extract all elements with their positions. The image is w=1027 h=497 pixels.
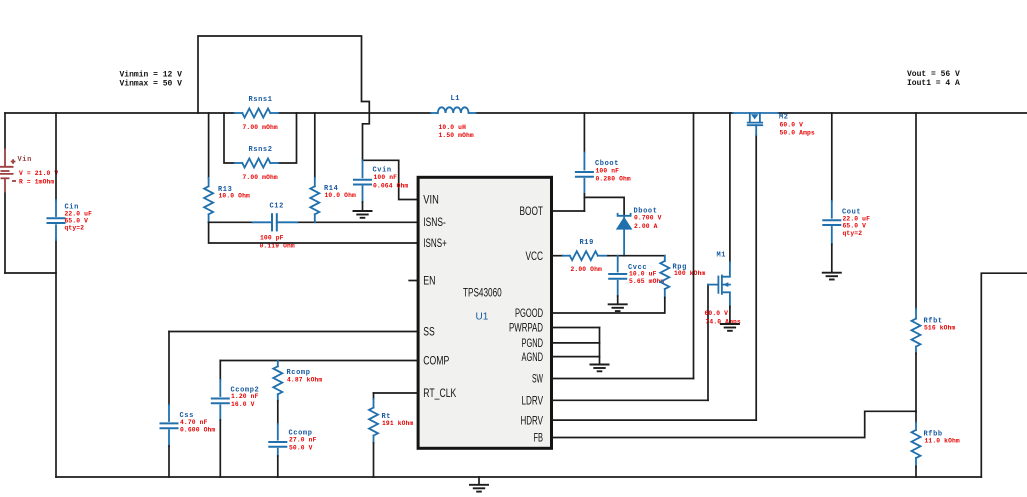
wire: output staircase right edge	[981, 273, 1027, 477]
svg-text:22.0 uF: 22.0 uF	[65, 211, 93, 218]
svg-text:Vout = 56 V: Vout = 56 V	[907, 70, 960, 79]
wire: top loop over Rsns	[198, 36, 369, 160]
svg-text:65.0 V: 65.0 V	[843, 223, 867, 230]
svg-text:7.00 mOhm: 7.00 mOhm	[243, 174, 278, 181]
wire: LDRV column to M1 gate	[707, 285, 709, 401]
wire: VCC line left part	[552, 255, 563, 257]
IC U1 TPS43060	[418, 177, 551, 448]
capacitor Cvcc	[608, 256, 627, 296]
svg-text:0.700 V: 0.700 V	[634, 215, 662, 222]
svg-text:100 pF: 100 pF	[260, 234, 284, 241]
capacitor Cboot	[575, 153, 594, 195]
wire: M1 source to ground	[729, 307, 731, 323]
wire: rail segment D (VOUT, M2 to right edge)	[778, 112, 1027, 114]
wire: Cboot column from rail	[583, 113, 585, 153]
wire: HDRV pin line	[552, 419, 756, 421]
svg-text:ISNS+: ISNS+	[423, 236, 447, 250]
ground for PWRPAD/PGND/AGND	[590, 365, 610, 372]
wire: Rpg bottom to PGOOD pin	[552, 298, 665, 314]
resistor Rt	[369, 399, 378, 443]
resistor R19	[563, 251, 608, 260]
svg-text:RT_CLK: RT_CLK	[423, 386, 456, 400]
svg-text:10.0 uH: 10.0 uH	[439, 124, 467, 131]
wire: Rt bottom to ground rail	[373, 443, 375, 477]
svg-text:Vinmin = 12 V: Vinmin = 12 V	[120, 71, 183, 80]
svg-text:VIN: VIN	[423, 193, 439, 207]
svg-text:V = 21.0 V: V = 21.0 V	[19, 170, 58, 177]
svg-text:Vinmax = 50 V: Vinmax = 50 V	[120, 80, 183, 89]
wire: FB pin line	[552, 411, 916, 437]
svg-text:TPS43060: TPS43060	[463, 285, 502, 299]
svg-text:PGOOD: PGOOD	[515, 306, 543, 320]
wire: bottom ground rail	[56, 476, 981, 478]
svg-text:100 kOhm: 100 kOhm	[674, 270, 706, 277]
svg-text:Rsns1: Rsns1	[249, 96, 273, 104]
wire: PWRPAD to ground stack	[552, 327, 600, 329]
svg-text:FB: FB	[534, 431, 544, 445]
wire: R13 column from rail	[208, 113, 210, 178]
ground on bottom rail	[469, 485, 489, 492]
wire: RT_CLK pin line	[374, 392, 418, 394]
wire: Rcomp to Ccomp	[277, 401, 279, 424]
capacitor Cvin	[353, 160, 372, 202]
capacitor Ccomp2	[211, 380, 230, 420]
wire: Vin left column	[4, 113, 6, 149]
wire: M1 drain column from rail	[729, 113, 731, 262]
battery Vin	[0, 149, 16, 193]
resistor Rsns2	[235, 159, 279, 168]
svg-text:2.00 Ohm: 2.00 Ohm	[571, 266, 603, 273]
svg-text:10.0 Ohm: 10.0 Ohm	[325, 192, 357, 199]
svg-text:M1: M1	[717, 252, 727, 260]
wire: SS pin line	[169, 331, 417, 333]
svg-text:4.87 kOhm: 4.87 kOhm	[287, 377, 322, 384]
wire: Css column	[168, 332, 170, 406]
transistor Q2 M2	[733, 113, 778, 135]
svg-text:M2: M2	[779, 114, 789, 122]
ground below M1	[720, 324, 740, 331]
wire: bottom rail ground stem	[478, 477, 480, 484]
svg-text:100 nF: 100 nF	[596, 167, 620, 174]
ground below Cout	[822, 273, 842, 280]
wire: HDRV column to M2 gate	[755, 135, 757, 420]
svg-text:LDRV: LDRV	[522, 394, 544, 408]
wire: Cout ground stem	[831, 244, 833, 271]
wire: Ccomp2 column	[219, 361, 221, 381]
transistor Q1 M1	[708, 262, 730, 307]
wire: Rsns2 parallel box	[224, 113, 235, 163]
capacitor Css	[160, 405, 179, 446]
svg-text:0.280 Ohm: 0.280 Ohm	[596, 175, 631, 182]
wire: EN stub	[409, 280, 417, 282]
svg-text:60.0 V: 60.0 V	[705, 310, 729, 317]
svg-text:1.50 mOhm: 1.50 mOhm	[439, 132, 474, 139]
svg-text:10.0 uF: 10.0 uF	[629, 271, 657, 278]
svg-text:qty=2: qty=2	[843, 230, 863, 237]
resistor Rfbb	[912, 411, 921, 466]
capacitor C12	[253, 213, 298, 231]
svg-text:0.600 Ohm: 0.600 Ohm	[180, 426, 215, 433]
wire: rail segment C (SW node, L1 to M2)	[476, 112, 734, 114]
svg-text:11.0 kOhm: 11.0 kOhm	[925, 438, 960, 445]
wire: ground stack column	[599, 328, 601, 364]
svg-text:PGND: PGND	[522, 336, 544, 350]
wire: COMP pin line	[220, 360, 417, 362]
svg-text:qty=2: qty=2	[65, 225, 85, 232]
wire: Ccomp bottom to ground rail	[277, 456, 279, 477]
svg-text:Rsns2: Rsns2	[249, 146, 273, 154]
svg-text:27.0 nF: 27.0 nF	[289, 437, 317, 444]
svg-text:191 kOhm: 191 kOhm	[382, 420, 414, 427]
svg-text:U1: U1	[476, 312, 489, 323]
resistor R13	[204, 178, 213, 222]
wire: Rfbb bottom to ground rail	[915, 466, 917, 477]
wire: Rfbt column from rail	[915, 113, 917, 309]
svg-text:60.0 V: 60.0 V	[780, 122, 804, 129]
wire: SW pin line	[552, 378, 694, 380]
svg-text:EN: EN	[423, 274, 435, 288]
wire: PGND to ground stack	[552, 342, 600, 344]
wire: BOOT pin wire and jog to Dboot	[583, 194, 585, 211]
resistor Rpg (VCC to PGOOD pull-up)	[660, 256, 669, 298]
wire: LDRV pin line	[552, 399, 708, 401]
wire: input rail segment A (Vin to Rsns1 left)	[5, 112, 235, 114]
resistor Rsns1	[235, 109, 279, 118]
svg-text:SS: SS	[423, 325, 435, 339]
wire: Ccomp2 bottom to ground rail	[219, 420, 221, 477]
wire: Rt column	[373, 393, 375, 399]
svg-text:R = 1mOhm: R = 1mOhm	[19, 179, 54, 186]
wire: Cout column from rail	[831, 113, 833, 201]
svg-text:4.70 nF: 4.70 nF	[180, 419, 208, 426]
svg-text:0.064 Ohm: 0.064 Ohm	[373, 183, 408, 190]
resistor Rfbt	[912, 309, 921, 354]
wire: Cvin ground stem	[362, 202, 364, 210]
wire: ISNS- line with C12	[209, 221, 253, 223]
svg-text:22.0 uF: 22.0 uF	[843, 216, 871, 223]
capacitor Cout	[822, 201, 841, 244]
svg-text:1.20 nF: 1.20 nF	[231, 393, 259, 400]
svg-text:BOOT: BOOT	[520, 204, 544, 218]
svg-text:65.0 V: 65.0 V	[65, 218, 89, 225]
svg-text:ISNS-: ISNS-	[423, 215, 446, 229]
svg-text:VCC: VCC	[526, 249, 544, 263]
wire: rail segment B (Rsns1 right to L1)	[278, 112, 431, 114]
capacitor Ccomp	[268, 424, 287, 456]
wire: Cin column	[55, 113, 57, 200]
svg-text:SW: SW	[532, 372, 543, 386]
svg-text:L1: L1	[451, 95, 461, 103]
svg-text:Vin: Vin	[18, 156, 32, 164]
resistor Rcomp	[273, 361, 282, 402]
svg-text:Iout1 = 4 A: Iout1 = 4 A	[907, 79, 960, 88]
wire: Cvcc ground stem	[617, 296, 619, 303]
svg-text:16.0 V: 16.0 V	[231, 401, 255, 408]
svg-text:10.0 Ohm: 10.0 Ohm	[219, 193, 251, 200]
inductor L1	[431, 107, 476, 113]
wire: Vin bottom to Cin column	[5, 272, 56, 274]
svg-text:50.0 V: 50.0 V	[289, 444, 313, 451]
svg-text:100 nF: 100 nF	[374, 174, 398, 181]
diode Dboot	[616, 214, 633, 256]
wire: AGND to ground stack	[552, 356, 600, 358]
svg-text:HDRV: HDRV	[521, 413, 544, 427]
wire: Rfbt bottom to FB node	[915, 353, 917, 411]
wire: R14 column from rail	[314, 113, 316, 178]
capacitor Cin	[47, 200, 66, 240]
ground below Cvcc	[608, 304, 628, 311]
wire: VCC line right part	[608, 255, 665, 257]
wire: Css bottom to ground rail	[168, 446, 170, 477]
svg-text:PWRPAD: PWRPAD	[509, 321, 543, 335]
wire: Cvin node to VIN pin	[363, 160, 418, 199]
svg-text:AGND: AGND	[522, 350, 544, 364]
svg-text:516 kOhm: 516 kOhm	[924, 324, 956, 331]
svg-text:7.00 mOhm: 7.00 mOhm	[243, 124, 278, 131]
wire: SW column to rail	[693, 113, 695, 379]
svg-text:COMP: COMP	[423, 354, 449, 368]
ground below Cvin	[353, 211, 373, 218]
svg-text:R19: R19	[580, 239, 594, 247]
svg-text:C12: C12	[270, 203, 284, 211]
svg-text:2.00 A: 2.00 A	[634, 223, 658, 230]
svg-text:50.0 Amps: 50.0 Amps	[780, 130, 815, 137]
wire: ISNS+ line	[209, 222, 417, 243]
resistor R14	[310, 178, 319, 222]
